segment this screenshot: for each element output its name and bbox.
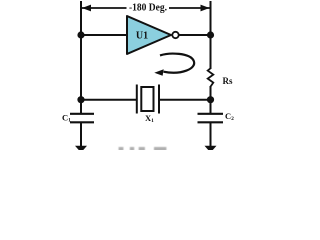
crystal X1 left plate bbox=[136, 85, 138, 114]
ground arrow right bbox=[205, 146, 217, 153]
wire top phase arrow right segment bbox=[169, 7, 210, 9]
wire inverter input bbox=[81, 34, 127, 36]
svg-text:U1: U1 bbox=[136, 30, 148, 41]
inverter output bubble bbox=[172, 32, 178, 38]
wire C2 to ground bbox=[210, 122, 212, 146]
wire inverter output bbox=[179, 34, 211, 36]
capacitor C1 bottom plate bbox=[70, 121, 94, 123]
wire C1 to ground bbox=[80, 122, 82, 146]
svg-text:-180 Deg.: -180 Deg. bbox=[129, 3, 167, 14]
arrowhead of feedback loop bbox=[154, 69, 163, 76]
svg-text:C2: C2 bbox=[225, 111, 234, 122]
label 0/360 Deg. (clipped at bottom edge) bbox=[119, 147, 167, 151]
node junction left crystal bbox=[77, 96, 84, 103]
capacitor C2 bottom plate bbox=[198, 121, 224, 123]
ground arrow left bbox=[75, 146, 87, 153]
wire crystal right bbox=[160, 99, 211, 101]
svg-text:C1: C1 bbox=[62, 112, 71, 123]
capacitor C2 top plate bbox=[198, 113, 224, 115]
svg-text:X1: X1 bbox=[145, 113, 154, 124]
capacitor C1 top plate bbox=[70, 113, 94, 115]
crystal X1 body bbox=[141, 87, 153, 111]
node junction right output bbox=[207, 31, 214, 38]
node junction left input bbox=[77, 31, 84, 38]
wire crystal left bbox=[81, 99, 136, 101]
arrowhead left of -180 Deg. line bbox=[82, 5, 91, 12]
crystal X1 right plate bbox=[158, 85, 160, 114]
resistor Rs zigzag bbox=[208, 68, 214, 86]
wire top phase arrow left segment bbox=[82, 7, 127, 9]
feedback loop curved arrow bbox=[160, 54, 194, 73]
svg-text:Rs: Rs bbox=[223, 76, 233, 86]
arrowhead right of -180 Deg. line bbox=[201, 5, 210, 12]
wire right vertical rail (top) bbox=[210, 1, 212, 69]
node junction right crystal bbox=[207, 96, 214, 103]
op-amp U1 inverter triangle bbox=[127, 16, 171, 54]
wire right vertical rail (below resistor) bbox=[210, 86, 212, 114]
wire left vertical rail bbox=[80, 1, 82, 114]
